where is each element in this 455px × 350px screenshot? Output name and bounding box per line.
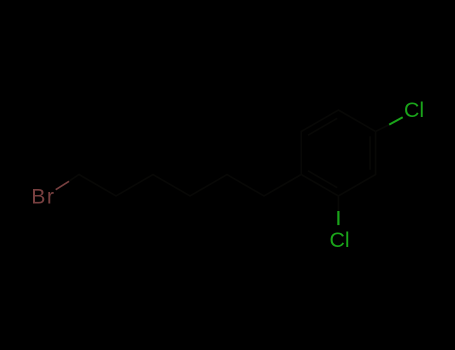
- dark half of bond C4-Cl (bottom): [337, 196, 339, 211]
- alkyl chain C7-C12 (dark, nearly invisible): [69, 175, 301, 197]
- svg-text:Cl: Cl: [330, 228, 350, 252]
- bond to bottom Cl, green half: [337, 211, 339, 225]
- dark half of bond C2-Cl (top): [338, 125, 389, 211]
- svg-text:Cl: Cl: [404, 98, 424, 122]
- bond to top Cl, green half: [389, 117, 403, 124]
- svg-text:Br: Br: [31, 185, 55, 209]
- benzene ring C1-C6 (dark, nearly invisible): [301, 110, 375, 196]
- bond Br half (maroon): [56, 181, 69, 189]
